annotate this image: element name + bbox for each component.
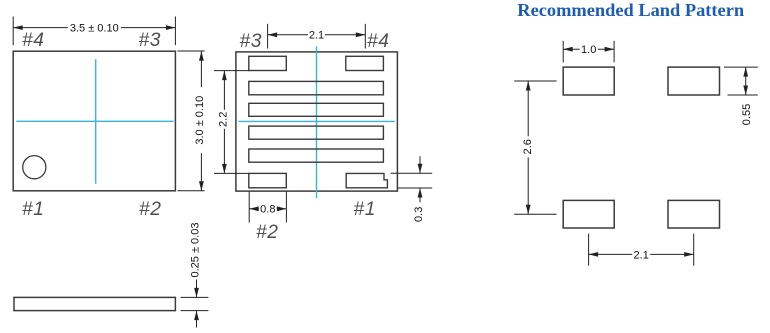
pin label #3 (bottom view) — [240, 31, 263, 52]
svg-text:0.3: 0.3 — [413, 207, 425, 222]
pad #4 (top-right) — [346, 56, 384, 70]
svg-text:#1: #1 — [354, 199, 377, 220]
svg-text:2.1: 2.1 — [634, 249, 649, 261]
top view vertical centerline — [95, 59, 97, 184]
svg-text:3.0 ± 0.10: 3.0 ± 0.10 — [194, 96, 206, 145]
pad #1 (bottom-right, notched) — [346, 173, 387, 187]
svg-text:1.0: 1.0 — [581, 44, 596, 56]
land pad bottom-left — [563, 200, 614, 228]
svg-text:3.5 ± 0.10: 3.5 ± 0.10 — [70, 23, 119, 35]
dimension 0.8 pad width — [249, 192, 286, 223]
pin label #1 — [22, 199, 45, 220]
dimension 2.1 pad pitch top — [268, 24, 366, 49]
dimension 3.5 +/-0.10 width — [13, 17, 175, 46]
svg-text:#3: #3 — [240, 31, 263, 52]
svg-text:#2: #2 — [256, 222, 279, 243]
side view outline — [14, 297, 175, 310]
land pad bottom-right — [668, 200, 720, 228]
dimension 2.1 land pad horizontal pitch — [589, 234, 694, 266]
dimension 3.0 +/-0.10 height — [177, 51, 206, 191]
dimension 1.0 land pad width — [563, 41, 614, 63]
svg-text:0.8: 0.8 — [260, 204, 275, 216]
electrode bar 2 — [249, 103, 384, 116]
dimension 2.2 electrode span — [214, 71, 249, 174]
pad #2 (bottom-left) — [249, 173, 286, 187]
bottom view horizontal centerline — [239, 120, 395, 122]
pin label #1 (bottom view) — [354, 199, 377, 220]
electrode bar 4 — [249, 149, 384, 162]
title Recommended Land Pattern — [517, 0, 744, 20]
dimension 0.25 +/-0.03 thickness — [181, 223, 209, 328]
dimension 2.6 land pad vertical pitch — [514, 81, 556, 214]
svg-text:#4: #4 — [367, 31, 390, 52]
pin label #4 — [22, 30, 45, 51]
pin label #2 (bottom view) — [256, 222, 279, 243]
dimension 0.55 land pad height — [724, 67, 758, 125]
svg-text:0.25 ± 0.03: 0.25 ± 0.03 — [190, 223, 202, 278]
dimension 0.3 pad height — [391, 156, 433, 222]
electrode bar 1 — [249, 81, 384, 94]
svg-text:2.6: 2.6 — [522, 139, 534, 154]
pin label #4 (bottom view) — [367, 31, 390, 52]
top view horizontal centerline — [16, 120, 173, 122]
svg-text:0.55: 0.55 — [741, 104, 753, 125]
top view package outline — [13, 51, 175, 191]
land pad top-right — [668, 67, 720, 95]
svg-text:#4: #4 — [22, 30, 45, 51]
bottom view vertical centerline — [316, 47, 318, 199]
pin 1 index circle — [23, 156, 46, 179]
bottom view package outline — [236, 52, 398, 191]
svg-text:#2: #2 — [139, 199, 162, 220]
pad #3 (top-left) — [249, 56, 286, 70]
svg-text:#3: #3 — [139, 30, 162, 51]
pin label #3 — [139, 30, 162, 51]
svg-text:Recommended Land Pattern: Recommended Land Pattern — [517, 0, 744, 20]
pin label #2 — [139, 199, 162, 220]
electrode bar 3 — [249, 126, 384, 139]
svg-text:#1: #1 — [22, 199, 45, 220]
land pad top-left — [563, 67, 614, 95]
svg-text:2.1: 2.1 — [309, 30, 324, 42]
svg-text:2.2: 2.2 — [218, 112, 230, 127]
